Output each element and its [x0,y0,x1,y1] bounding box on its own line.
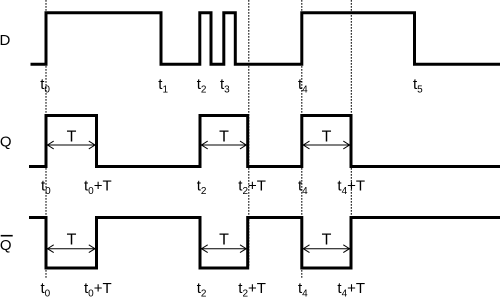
svg-text:t2+T: t2+T [238,178,266,197]
svg-text:t4+T: t4+T [337,280,365,297]
svg-text:D: D [0,32,11,49]
svg-text:T: T [67,231,77,248]
svg-text:t2+T: t2+T [238,280,266,297]
svg-text:Q: Q [0,237,11,254]
svg-text:t0+T: t0+T [84,178,112,197]
svg-text:T: T [219,231,229,248]
svg-text:T: T [322,129,332,146]
svg-text:T: T [67,129,77,146]
svg-text:t4+T: t4+T [337,178,365,197]
svg-text:Q: Q [0,134,11,151]
svg-text:t0+T: t0+T [84,280,112,297]
svg-text:T: T [322,231,332,248]
svg-text:T: T [219,129,229,146]
